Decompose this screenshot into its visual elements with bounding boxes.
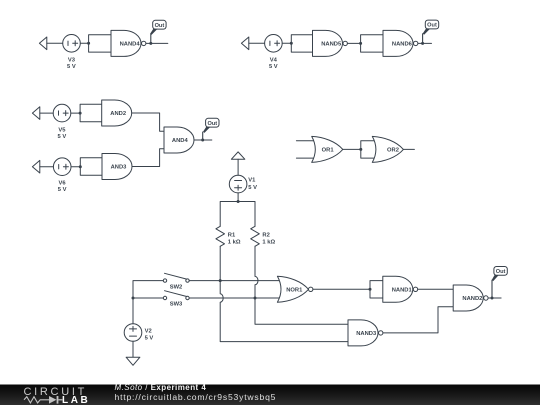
- svg-text:R2: R2: [262, 233, 269, 239]
- svg-text:V5: V5: [58, 128, 66, 134]
- switch SW2: [163, 279, 166, 282]
- voltage source V6: [53, 158, 71, 176]
- junction NOR1 output: [369, 288, 372, 291]
- svg-text:5 V: 5 V: [145, 335, 154, 341]
- wire NAND1 output to NAND2 input A: [418, 288, 454, 290]
- svg-text:NAND2: NAND2: [462, 296, 482, 302]
- NAND gate NAND2: [453, 285, 483, 311]
- wire AND2 input tie loop: [80, 104, 102, 121]
- Out flag at AND4 output: [206, 118, 219, 127]
- svg-text:NOR1: NOR1: [286, 287, 303, 293]
- Out flag at NAND6 output: [425, 20, 438, 29]
- svg-text:NAND5: NAND5: [321, 42, 342, 48]
- wire NAND5 input tie loop: [291, 35, 312, 52]
- svg-text:5 V: 5 V: [67, 64, 76, 70]
- svg-text:5 V: 5 V: [248, 185, 257, 191]
- svg-text:Out: Out: [155, 23, 165, 29]
- NAND gate NAND5: [313, 30, 343, 56]
- wire V1 to R1/R2 rail: [220, 193, 255, 226]
- svg-text:1 kΩ: 1 kΩ: [228, 239, 241, 245]
- junction R2/SW3: [254, 297, 257, 300]
- svg-text:1 kΩ: 1 kΩ: [262, 239, 275, 245]
- wire NAND6 input tie loop: [361, 35, 383, 52]
- junction NAND5 output: [359, 42, 362, 45]
- wire arrow to V1: [237, 159, 239, 175]
- wire OR2 input tie loop: [361, 141, 378, 158]
- voltage source V2: [124, 324, 142, 342]
- svg-text:Out: Out: [207, 121, 217, 127]
- wire NAND6 output: [418, 42, 432, 44]
- svg-text:V4: V4: [270, 57, 278, 63]
- svg-text:V3: V3: [68, 57, 76, 63]
- svg-text:SW3: SW3: [170, 302, 183, 308]
- junction OR1 output: [359, 148, 362, 151]
- wire arrow to V6: [40, 166, 54, 168]
- svg-text:AND4: AND4: [172, 138, 189, 144]
- wire AND4 output: [194, 139, 212, 141]
- wire NOR1 output to NAND1 node: [313, 288, 370, 290]
- svg-text:http://circuitlab.com/cr9s53yt: http://circuitlab.com/cr9s53ytwsbq5: [115, 392, 277, 402]
- svg-text:AND3: AND3: [111, 165, 128, 171]
- Out flag at NAND4 output: [153, 20, 166, 29]
- wire V5 to node: [71, 112, 80, 114]
- wire OR1 input stub A: [296, 140, 317, 142]
- svg-text:5 V: 5 V: [269, 64, 278, 70]
- AND gate AND4: [164, 127, 194, 153]
- junction at V4/NAND5 inputs: [290, 42, 293, 45]
- ground flag (left arrow) for V4: [241, 37, 248, 50]
- junction NAND4 output: [149, 42, 152, 45]
- wire NAND3 output to NAND2 input B: [383, 307, 453, 333]
- wire SW3 to NOR1 input B (hop over R1 wire): [189, 297, 283, 299]
- AND gate AND3: [102, 154, 132, 180]
- wire OR2 output stub: [403, 148, 414, 150]
- ground flag (left arrow) for V3: [39, 37, 46, 50]
- svg-text:R1: R1: [228, 233, 236, 239]
- svg-text:OR2: OR2: [387, 148, 399, 154]
- wire AND3 input tie loop: [80, 158, 102, 175]
- CircuitLab logo resistor-diode symbol: [24, 397, 49, 403]
- wire NAND1 input tie loop: [370, 281, 383, 298]
- OR gate OR1: [312, 136, 343, 162]
- svg-text:V1: V1: [248, 178, 256, 184]
- svg-text:AND2: AND2: [110, 111, 126, 117]
- ground symbol below V2: [126, 357, 140, 365]
- resistor R2: [251, 226, 260, 246]
- svg-text:V2: V2: [145, 328, 152, 334]
- AND gate AND2: [102, 100, 132, 126]
- junction NAND6 output: [421, 42, 424, 45]
- wire NAND2 output: [488, 297, 501, 299]
- NAND gate NAND3: [348, 320, 378, 346]
- wire AND3 output to AND4 input B: [132, 149, 164, 167]
- svg-text:NAND6: NAND6: [392, 42, 413, 48]
- svg-text:NAND1: NAND1: [392, 287, 413, 293]
- wire arrow to V4: [249, 42, 265, 44]
- wire V4 to node: [282, 42, 291, 44]
- voltage source V4: [265, 35, 283, 53]
- svg-text:LAB: LAB: [62, 395, 90, 405]
- OR gate OR2: [372, 136, 403, 162]
- wire R2 to SW3 node and NAND3 input A: [255, 246, 348, 324]
- wire OR1 output to OR2 node: [343, 148, 361, 150]
- Out flag at NAND2 output: [494, 267, 507, 276]
- junction at V6/AND3 inputs: [79, 165, 82, 168]
- svg-text:Out: Out: [496, 269, 506, 275]
- switch SW3: [163, 296, 166, 299]
- wire R1 to SW2 node and NAND3 input B: [220, 246, 348, 341]
- svg-text:NAND4: NAND4: [120, 42, 141, 48]
- junction NAND2 output: [491, 297, 494, 300]
- wire OR1 input stub B: [296, 157, 317, 159]
- wire NAND4 output: [146, 42, 168, 44]
- junction at V3/NAND4 inputs: [87, 42, 90, 45]
- ground flag (left arrow) for V6: [32, 160, 39, 173]
- wire V3 to node: [80, 42, 88, 44]
- voltage source V5: [53, 104, 71, 122]
- NAND gate NAND6: [383, 30, 413, 56]
- wire arrow to V3: [47, 42, 63, 44]
- svg-text:NAND3: NAND3: [356, 331, 377, 337]
- voltage source V1: [229, 175, 247, 193]
- junction V1 rail: [237, 200, 240, 203]
- wire SW2 to NOR1 input A (hop over R2 wire): [189, 280, 283, 282]
- wire NAND5 output: [347, 42, 360, 44]
- junction R1/SW2: [219, 279, 222, 282]
- wire V2 branch to SW3: [133, 297, 163, 299]
- wire arrow to V5: [40, 112, 53, 114]
- svg-text:V6: V6: [59, 181, 67, 187]
- junction at V5/AND2 inputs: [79, 112, 82, 115]
- wire V6 to node: [71, 166, 80, 168]
- resistor R1: [216, 226, 225, 246]
- NAND gate NAND4: [111, 30, 141, 56]
- svg-text:5 V: 5 V: [58, 134, 67, 140]
- wire V2 to SW2: [133, 281, 163, 324]
- voltage source V3: [63, 35, 81, 53]
- wire V2 to ground: [132, 341, 134, 357]
- svg-text:OR1: OR1: [322, 148, 335, 154]
- power flag (up arrow) above V1: [231, 152, 244, 159]
- ground flag (left arrow) for V5: [32, 107, 39, 120]
- wire AND2 output to AND4 input A: [132, 113, 164, 131]
- junction AND4 output: [201, 139, 204, 142]
- svg-text:Out: Out: [427, 23, 437, 29]
- NAND gate NAND1: [383, 276, 413, 302]
- NOR gate NOR1: [277, 276, 308, 302]
- wire NAND4 input tie loop: [89, 35, 111, 52]
- junction V2/SW3 branch: [132, 297, 135, 300]
- svg-text:5 V: 5 V: [58, 187, 67, 193]
- svg-text:SW2: SW2: [170, 284, 183, 290]
